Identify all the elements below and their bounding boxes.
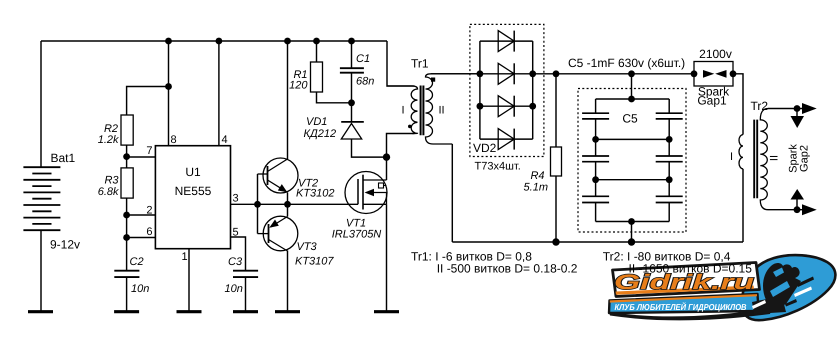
svg-text:VD1: VD1 xyxy=(306,116,327,128)
svg-text:6: 6 xyxy=(146,226,152,238)
transformer Tr2 secondary winding xyxy=(760,109,768,210)
transformer Tr1 primary winding xyxy=(387,86,418,134)
wire R1 bottom to snubber node xyxy=(317,92,352,103)
capacitor C5 right 3 xyxy=(656,196,683,202)
svg-text:Tr1: Tr1 xyxy=(411,57,429,71)
wire Tr2 secondary top terminal xyxy=(768,108,802,110)
svg-text:C5: C5 xyxy=(622,112,638,126)
svg-text:C1: C1 xyxy=(356,53,370,65)
spark gap 2 bottom output arrow xyxy=(802,204,817,215)
svg-text:2100v: 2100v xyxy=(699,47,732,61)
diode VD2 unit 3 xyxy=(498,96,514,117)
wire C1 top xyxy=(351,41,353,68)
transistor VT3 emitter diagonal xyxy=(271,217,288,228)
svg-text:5.1m: 5.1m xyxy=(524,182,548,194)
wire rail corner to Tr1 primary top xyxy=(387,41,415,86)
transistor VT2 emitter diagonal xyxy=(268,180,287,192)
wire VT2 collector to rail xyxy=(287,41,289,159)
wire C2 bottom to ground xyxy=(126,277,128,312)
transistor VT3 emitter arrow xyxy=(269,220,279,228)
node dot R4 top xyxy=(553,70,560,77)
transistor VT2 base lead xyxy=(258,173,268,175)
wire spark gap1 to Tr2 primary xyxy=(733,74,743,135)
node dot C5 entry xyxy=(628,70,635,77)
wire pin 5 to C3 xyxy=(231,237,246,271)
diode VD1 xyxy=(341,122,364,139)
wire R3 bottom down to C2 xyxy=(126,198,128,271)
node dot pin2 xyxy=(123,212,130,219)
ground C3 xyxy=(233,310,258,313)
wire pin 2 xyxy=(127,214,156,216)
spark gap 1 left electrode xyxy=(703,70,714,78)
wire VT3 emitter from node xyxy=(287,204,289,216)
svg-text:I: I xyxy=(401,105,404,117)
logo rider silhouette xyxy=(763,263,801,306)
svg-text:C2: C2 xyxy=(130,256,144,268)
wire C5 bank right column xyxy=(668,99,670,222)
transistor VT2 base bar xyxy=(267,166,269,185)
wire pin 4 vertical xyxy=(218,41,220,146)
svg-text:КЛУБ ЛЮБИТЕЛЕЙ ГИДРОЦИКЛОВ: КЛУБ ЛЮБИТЕЛЕЙ ГИДРОЦИКЛОВ xyxy=(615,302,747,312)
wire top supply rail xyxy=(41,40,387,42)
svg-text:I: I xyxy=(730,151,733,163)
wire mosfet drain xyxy=(386,157,388,180)
node dot drain VD1 Tr1 xyxy=(383,153,390,160)
logo speed slash 3 xyxy=(785,299,797,307)
resistor R2 xyxy=(121,115,133,145)
wire Tr2 secondary bottom terminal xyxy=(768,209,802,211)
transistor VT3 circle xyxy=(263,216,298,251)
logo banner orange edge xyxy=(610,295,757,301)
wire VT3 collector to ground xyxy=(287,251,289,312)
wire VD2 right bus to spark gap1 xyxy=(533,73,694,75)
wire Tr1 secondary top to VD2 left bus xyxy=(431,73,480,75)
diode VD2 unit 4 xyxy=(498,129,514,150)
wire pin 8 vertical xyxy=(168,41,170,146)
mosfet VT1 protection square xyxy=(379,183,387,188)
wire bottom HV rail xyxy=(452,241,743,243)
wire C1 bottom to VD1 cathode xyxy=(351,73,353,122)
transformer Tr2 core xyxy=(754,120,757,199)
resistor R4 xyxy=(551,147,562,176)
node dot rail R1 xyxy=(313,38,320,45)
wire C3 bottom to ground xyxy=(245,277,247,312)
node dot base bus xyxy=(254,201,261,208)
svg-text:68n: 68n xyxy=(356,76,374,88)
transistor VT3 collector diagonal xyxy=(269,240,288,252)
node dot spark gap1 right xyxy=(730,70,737,77)
wire C5 bank middle link 1 xyxy=(596,138,670,140)
node dot VD2 right bus row2 xyxy=(529,70,536,77)
node dot VD2 left bus row2 xyxy=(477,70,484,77)
svg-text:C3: C3 xyxy=(228,256,243,268)
svg-text:10n: 10n xyxy=(131,283,149,295)
svg-text:Т73х4шт.: Т73х4шт. xyxy=(475,160,521,172)
logo underline stripe xyxy=(616,286,755,295)
transistor Q VT2 circle xyxy=(263,158,298,193)
mosfet VT1 source branch xyxy=(363,203,387,205)
wire R2 bottom to R3 top with pin7 tap xyxy=(126,145,128,168)
wire VT2 emitter to node xyxy=(287,193,289,205)
node dot rail pin4 xyxy=(216,38,223,45)
capacitor C5 left 1 xyxy=(582,113,609,119)
svg-text:R4: R4 xyxy=(530,170,544,182)
ground VT3 xyxy=(275,310,300,313)
wire pin 6 xyxy=(127,237,156,239)
mosfet VT1 body arrow xyxy=(365,189,375,197)
wire VD2 right bus xyxy=(532,41,534,139)
node dot rail C1 xyxy=(348,38,355,45)
svg-text:KT3102: KT3102 xyxy=(296,187,335,199)
diode VD2 unit 2 xyxy=(498,63,514,84)
svg-text:II: II xyxy=(769,155,781,161)
logo wave blob xyxy=(742,255,835,320)
wire battery positive lead xyxy=(40,41,42,167)
wire VD2 diode row 1 xyxy=(480,40,533,42)
svg-text:KT3107: KT3107 xyxy=(295,255,334,267)
transformer Tr1 primary polarity dot xyxy=(408,125,412,129)
wire C5 bank top entry xyxy=(631,74,633,99)
svg-text:Gap1: Gap1 xyxy=(697,94,727,108)
ground battery xyxy=(28,310,53,313)
logo banner underwave xyxy=(609,308,772,320)
wire C5 bank middle link 2 xyxy=(596,179,670,181)
battery Bat1 xyxy=(23,167,60,230)
svg-text:II -1650 витков D=0.15: II -1650 витков D=0.15 xyxy=(629,262,753,276)
svg-text:R3: R3 xyxy=(104,175,119,187)
wire Tr1 primary bottom to drain node xyxy=(387,134,415,158)
wire Tr2 primary bottom to bottom rail xyxy=(742,169,744,242)
capacitor C5 left 3 xyxy=(582,196,609,202)
node dot emitters xyxy=(284,201,291,208)
wire R4 top xyxy=(555,74,557,147)
wire pin 1 to ground xyxy=(188,249,190,312)
wire VD2 diode row 4 xyxy=(480,138,533,140)
spark gap 1 right electrode xyxy=(715,70,726,78)
svg-text:8: 8 xyxy=(171,134,177,146)
spark gap 1 housing xyxy=(694,62,733,87)
wire C5 bank bottom exit xyxy=(631,222,633,243)
svg-text:VD2: VD2 xyxy=(473,141,497,155)
spark gap 2 lower electrode arrow xyxy=(791,189,805,200)
capacitor bank C5 dashed box xyxy=(578,89,686,233)
svg-text:7: 7 xyxy=(146,145,152,157)
node dot C5 mid link2 right xyxy=(666,176,673,183)
transistor VT2 emitter arrow xyxy=(278,184,288,192)
svg-text:6.8k: 6.8k xyxy=(98,186,119,198)
wire pin 7 xyxy=(127,156,156,158)
wire VD2 diode row 3 xyxy=(480,105,533,107)
svg-text:NE555: NE555 xyxy=(175,184,212,198)
transformer Tr2 primary winding xyxy=(739,135,743,169)
svg-text:C5 -1mF 630v (х6шт.): C5 -1mF 630v (х6шт.) xyxy=(568,56,685,70)
svg-text:Gap2: Gap2 xyxy=(799,145,811,172)
node dot rail pin8 xyxy=(165,38,172,45)
spark gap 2 top output arrow xyxy=(802,103,817,114)
logo jetski underside xyxy=(752,296,786,314)
logo rider highlight 1 xyxy=(770,281,790,297)
logo splash white xyxy=(752,300,766,309)
svg-text:10n: 10n xyxy=(225,283,243,295)
logo rider highlight 2 xyxy=(773,268,784,278)
transformer Tr1 secondary polarity mark xyxy=(431,78,435,82)
node dot R1 C1 junction xyxy=(348,99,355,106)
node dot bottom rail R4 xyxy=(552,238,559,245)
svg-text:II -500 витков D= 0.18-0.2: II -500 витков D= 0.18-0.2 xyxy=(437,262,578,276)
svg-text:4: 4 xyxy=(222,134,228,146)
svg-text:R2: R2 xyxy=(104,123,118,135)
wire Tr1 secondary bottom leg xyxy=(451,144,453,242)
mosfet VT1 body branch xyxy=(368,193,387,205)
wire battery negative lead to ground xyxy=(40,231,42,312)
transformer Tr1 core xyxy=(421,86,424,136)
node dot spark gap2 top xyxy=(794,105,801,112)
svg-text:Tr2: Tr2 xyxy=(751,99,769,113)
diode VD2 unit 1 xyxy=(498,31,514,52)
transistor VT3 base lead xyxy=(258,233,269,235)
mosfet VT1 drain branch xyxy=(363,179,387,181)
mosfet VT1 circle xyxy=(345,172,387,214)
wire pin 3 to transistor bases and mosfet gate xyxy=(231,203,359,205)
wire VD2 left bus xyxy=(479,41,481,139)
ground pin1 xyxy=(177,310,202,313)
svg-text:120: 120 xyxy=(289,79,308,91)
ground VT1 source xyxy=(374,310,399,313)
node dot VD2 right bus row3 xyxy=(529,103,536,110)
diode VD2 stack dashed box xyxy=(470,24,544,156)
resistor R1 xyxy=(311,62,323,92)
transistor VT3 base bar xyxy=(268,224,270,243)
logo speed slash 1 xyxy=(797,277,814,288)
node dot pin6 xyxy=(123,234,130,241)
svg-text:1.2k: 1.2k xyxy=(98,134,119,146)
logo speed slash 2 xyxy=(794,287,812,298)
svg-text:VT1: VT1 xyxy=(346,217,366,229)
svg-text:КД212: КД212 xyxy=(304,128,337,140)
label Spark Gap2 rotated xyxy=(788,144,811,173)
svg-text:Bat1: Bat1 xyxy=(51,151,76,165)
resistor R3 xyxy=(121,168,133,198)
capacitor C1 xyxy=(340,68,364,73)
wire mosfet source to ground xyxy=(386,204,388,311)
svg-text:1: 1 xyxy=(182,251,188,263)
svg-text:2: 2 xyxy=(146,205,152,217)
node dot C5 bottom xyxy=(628,218,635,225)
wire VD2 diode row 2 xyxy=(480,73,533,75)
ground C2 xyxy=(114,310,139,313)
svg-text:II: II xyxy=(438,105,444,117)
spark gap 2 upper electrode arrow xyxy=(791,116,805,128)
logo banner xyxy=(609,294,759,313)
wire spark gap2 upper stem xyxy=(796,109,798,117)
svg-text:IRL3705N: IRL3705N xyxy=(332,229,382,241)
wire R2 top branch to pin8 line xyxy=(127,87,169,116)
wire C5 bank left column xyxy=(595,99,597,222)
wire spark gap2 lower stem xyxy=(796,200,798,210)
wire C5 bank top node xyxy=(596,98,670,100)
wire R1 top xyxy=(316,41,318,62)
wire C5 bank bottom node xyxy=(596,221,670,223)
svg-text:5: 5 xyxy=(233,227,239,239)
node dot R2 R3 pin7 xyxy=(123,153,130,160)
node dot VD2 left bus row3 xyxy=(477,103,484,110)
mosfet VT1 channel bar xyxy=(362,175,364,210)
node dot spark gap1 left xyxy=(691,70,698,77)
node dot C5 top xyxy=(628,96,635,103)
node dot C5 mid link1 left xyxy=(592,136,599,143)
transformer Tr1 secondary winding xyxy=(426,74,480,144)
wire R4 bottom xyxy=(555,176,557,242)
node dot C5 mid link1 right xyxy=(666,136,673,143)
wire VD1 anode to drain node xyxy=(352,139,387,157)
capacitor C2 xyxy=(114,271,139,277)
transistor VT2 collector diagonal xyxy=(268,159,288,172)
logo name plate xyxy=(613,263,760,297)
svg-text:9-12v: 9-12v xyxy=(50,238,80,252)
node dot bottom rail C5 xyxy=(628,238,635,245)
node dot C5 mid link2 left xyxy=(592,176,599,183)
node dot R2 tap pin8 xyxy=(165,83,172,90)
capacitor C5 right 2 xyxy=(656,156,683,162)
svg-text:3: 3 xyxy=(233,193,239,205)
mosfet VT1 gate bar xyxy=(357,179,359,204)
IC U1 NE555 body xyxy=(155,146,230,249)
capacitor C5 right 1 xyxy=(656,113,683,119)
capacitor C5 left 2 xyxy=(582,156,609,162)
node dot rail VT2 collector xyxy=(284,38,291,45)
svg-text:VT3: VT3 xyxy=(297,241,318,253)
wire VT2 VT3 base bus xyxy=(257,174,259,234)
capacitor C3 xyxy=(233,271,258,277)
svg-text:U1: U1 xyxy=(185,165,201,179)
node dot spark gap2 bottom xyxy=(794,206,801,213)
